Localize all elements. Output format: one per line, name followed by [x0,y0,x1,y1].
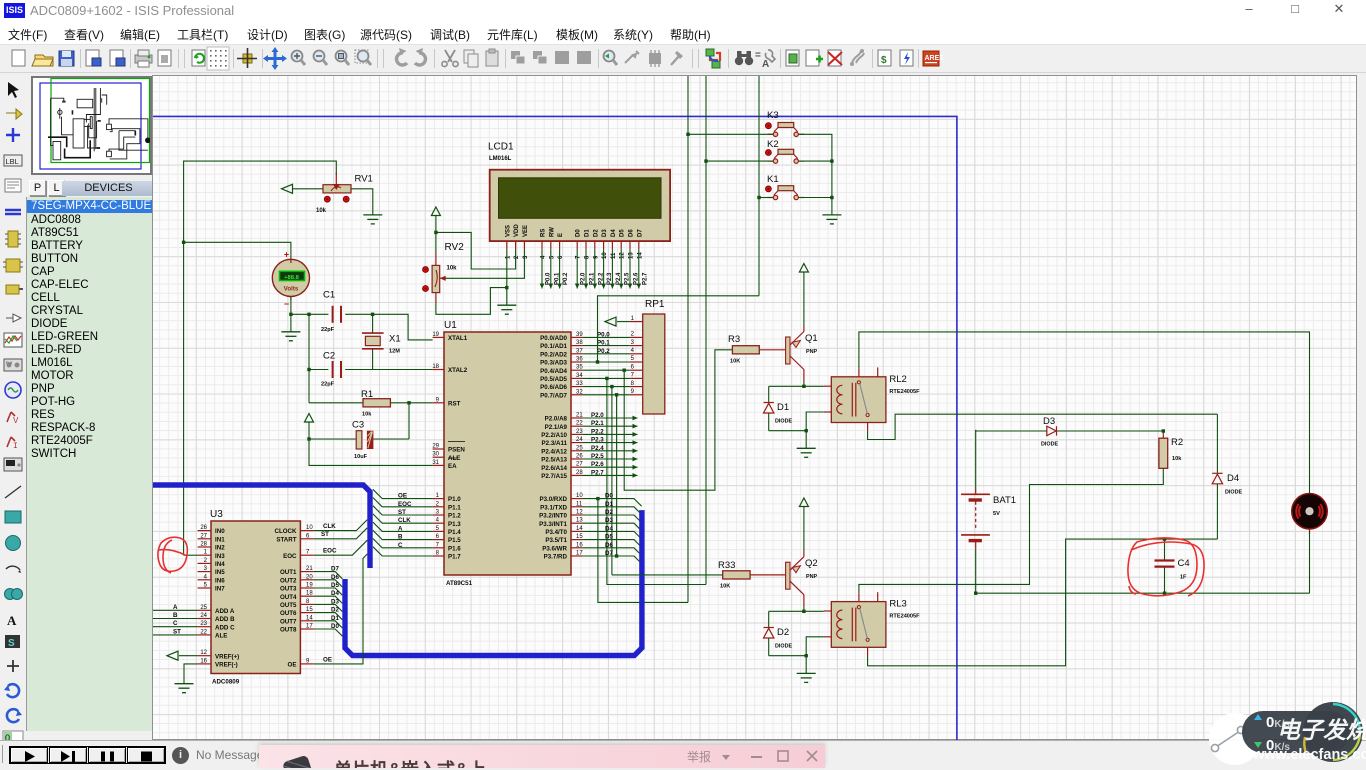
svg-text:P2.6/A14: P2.6/A14 [541,465,567,472]
svg-text:D3: D3 [331,598,339,605]
wire LCD VSS to ground [505,249,508,305]
svg-text:OUT5: OUT5 [280,602,297,609]
svg-text:15: 15 [306,607,313,613]
svg-text:13: 13 [629,252,635,259]
svg-text:25: 25 [200,605,207,611]
wire K1 rail from top [758,76,760,296]
wire K2 rail from top [705,76,707,585]
wire P1.0 [373,489,433,499]
svg-text:P2.7: P2.7 [591,469,604,476]
wire BAT1 minus to motor rail [975,548,977,593]
wire RL2 coil- to ground [769,412,824,448]
svg-text:14: 14 [637,252,643,259]
wire P2.7 row [582,469,637,477]
svg-text:12: 12 [576,510,583,516]
wire VREF- to ground [184,664,198,684]
svg-text:4: 4 [631,348,635,354]
wire P0.4 row [582,369,630,371]
wire LCD P2.3 [601,249,613,288]
wire P0.4 to R3 [623,350,733,490]
svg-text:LBL: LBL [6,157,19,166]
svg-text:P2.7: P2.7 [642,272,648,285]
svg-text:14: 14 [306,615,313,621]
svg-text:D7: D7 [637,229,643,237]
svg-text:IN0: IN0 [215,528,225,535]
wire OUT5 D3 [314,598,343,611]
wire X1 leads [372,314,374,369]
svg-text:P2.2/A10: P2.2/A10 [541,432,567,439]
svg-text:IN5: IN5 [215,569,225,576]
svg-text:IN1: IN1 [215,536,225,543]
svg-text:BAT1: BAT1 [993,495,1016,506]
svg-text:P2.5: P2.5 [591,453,604,460]
svg-text:A: A [7,613,17,628]
svg-text:10: 10 [576,493,583,499]
svg-text:P2.2: P2.2 [591,428,604,435]
svg-text:28: 28 [576,470,583,476]
svg-text:LCD1: LCD1 [488,142,514,153]
wire P0.5 to K2 [605,377,706,585]
wire R33 to Q2 base [750,574,786,576]
svg-text:26: 26 [576,454,583,460]
wire OUT8 D0 [314,623,343,636]
svg-text:VEE: VEE [523,225,529,237]
svg-text:17: 17 [576,551,583,557]
wire RL3 common to R2 [859,468,1163,593]
svg-text:PNP: PNP [806,574,817,580]
wire RL2 common to motor rail [859,332,1310,493]
wire P0.0 row [582,336,630,338]
svg-text:C2: C2 [323,351,335,362]
wire RV1 right to ground [351,189,373,215]
svg-text:P0.2: P0.2 [597,348,610,355]
svg-text:U1: U1 [444,320,457,331]
svg-text:DIODE: DIODE [775,644,792,650]
svg-text:P2.6: P2.6 [591,461,604,468]
wire K2 right [799,159,834,162]
svg-text:P0.0: P0.0 [597,331,610,338]
svg-text:OE: OE [398,493,407,500]
svg-text:RS: RS [541,229,547,237]
wire P0.6 to R33 [610,385,613,575]
label P0.2 [597,348,610,355]
wire P2.5 row [582,453,637,461]
svg-text:Volts: Volts [284,286,299,293]
svg-text:RL3: RL3 [889,599,906,610]
svg-text:ADD B: ADD B [215,616,235,623]
wire LCD P0.0 [540,249,552,288]
svg-text:5: 5 [631,356,635,362]
resistor R1 [361,389,390,418]
svg-text:22: 22 [200,629,207,635]
svg-text:12M: 12M [389,349,400,355]
wire P0.3 row [582,361,630,363]
svg-text:D0: D0 [605,493,613,500]
svg-text:V: V [13,416,19,425]
wire LCD P0.2 [557,249,569,288]
ground LCD [497,305,516,314]
svg-text:EOC: EOC [323,548,337,555]
svg-text:15: 15 [576,534,583,540]
wire LCD VEE to RV2 wiper [442,249,524,278]
svg-text:RV1: RV1 [355,174,373,185]
svg-text:ST: ST [173,628,181,635]
svg-text:P2.7/A15: P2.7/A15 [541,473,567,480]
svg-text:P3.5/T1: P3.5/T1 [545,537,567,544]
svg-text:OUT8: OUT8 [280,627,297,634]
wire LCD VDD to +5V [436,232,516,269]
svg-text:26: 26 [200,525,207,531]
svg-text:Q1: Q1 [805,333,818,344]
wire P2.0 row [582,412,637,420]
svg-text:VREF(-): VREF(-) [215,662,238,669]
svg-text:EOC: EOC [283,553,297,560]
svg-text:5V: 5V [993,511,1000,517]
svg-text:3: 3 [523,255,529,259]
wire LCD P2.1 [584,249,596,288]
svg-text:ADD C: ADD C [215,624,235,631]
diode D4 [1212,414,1242,539]
wire rail to voltmeter [182,241,291,260]
voltmeter Volts [272,250,309,309]
svg-text:OUT4: OUT4 [280,594,297,601]
svg-text:R2: R2 [1171,437,1183,448]
svg-text:P-9: P-9 [6,360,13,365]
terminal RP1 pin1 [605,317,630,326]
svg-text:P3.6/WR: P3.6/WR [542,545,567,552]
label P0.1 [597,340,610,347]
button K1 [766,174,805,200]
wire P2.6 row [582,461,637,469]
ground RL3 [797,673,816,682]
svg-text:C4: C4 [1178,558,1190,569]
power +5V Q1 [799,264,808,332]
wire P3.7/D7 row [582,550,641,564]
svg-text:D6: D6 [331,574,339,581]
wire LCD P2.2 [592,249,604,288]
wire K2 row [704,159,773,162]
svg-text:D4: D4 [605,525,613,532]
wire RV2 bottom [436,288,507,315]
wire R3 to Q1 base [759,349,785,351]
svg-text:D4: D4 [331,590,339,597]
svg-text:举报: 举报 [687,749,711,764]
svg-text:18: 18 [306,591,313,597]
wire P0.2 row [582,353,630,355]
svg-text:XTAL2: XTAL2 [448,367,468,374]
svg-text:38: 38 [576,340,583,346]
svg-text:6: 6 [631,364,635,370]
svg-text:D2: D2 [605,509,613,516]
svg-text:22pF: 22pF [321,382,335,388]
svg-text:P1.7: P1.7 [448,554,461,561]
svg-text:10: 10 [602,252,608,259]
ground U3 [175,684,194,693]
svg-text:P3.7/RD: P3.7/RD [544,554,568,561]
wire ST [314,528,368,539]
resistor R2 [1159,437,1183,468]
wire P0.7 to D7 net [615,393,618,558]
svg-text:31: 31 [432,460,439,466]
diode D2 [764,611,793,655]
wire P1.1 [373,498,433,508]
wire P0.7 row [582,394,630,396]
wire P1.2 [373,506,433,516]
wire ADD B [153,612,198,619]
svg-text:P0.1/AD1: P0.1/AD1 [540,343,567,350]
svg-text:CLK: CLK [323,523,336,530]
terminal VREF+ [167,651,198,660]
svg-text:RTE24005F: RTE24005F [889,389,920,395]
sheet border (blue) [153,116,957,742]
svg-text:4: 4 [541,255,547,259]
svg-text:DIODE: DIODE [1225,490,1242,496]
svg-text:D4: D4 [1227,473,1239,484]
svg-text:VDD: VDD [514,224,520,237]
svg-text:ST: ST [398,509,406,516]
svg-text:D2: D2 [777,627,789,638]
svg-text:D3: D3 [602,229,608,237]
potentiometer RV1 [316,173,373,214]
svg-text:OUT6: OUT6 [280,610,297,617]
wire EOC [314,540,368,555]
svg-text:CLK: CLK [398,517,411,524]
svg-text:OUT7: OUT7 [280,618,297,625]
ground K buttons [822,215,841,224]
wire OUT2 D6 [314,574,343,587]
svg-text:12: 12 [620,252,626,259]
svg-text:C1: C1 [323,290,335,301]
capacitor C1 [321,290,341,334]
annotation circle IN3 [158,537,187,573]
wire voltmeter to ground [289,296,292,331]
svg-text:27: 27 [200,533,207,539]
wire R33 row [612,574,723,576]
wire K3 to D0 net [596,497,688,603]
LCD LCD1 LM016L [488,142,670,260]
transistor Q1 PNP [786,332,818,370]
wire C1 row / XTAL1 [291,313,433,340]
svg-text:OE: OE [323,656,332,663]
svg-text:25: 25 [576,445,583,451]
svg-text:34: 34 [576,373,583,379]
svg-text:START: START [276,536,296,543]
svg-text:AT89C51: AT89C51 [446,580,473,587]
svg-text:EOC: EOC [398,501,412,508]
wire Q2 collector rail [769,595,824,613]
svg-text:14: 14 [576,526,583,532]
svg-text:P0.2: P0.2 [563,272,569,285]
svg-text:C3: C3 [352,420,364,431]
wire K3 right [799,134,832,215]
svg-text:16: 16 [200,658,207,664]
wire RL3 coil- to ground [769,637,824,674]
svg-text:1F: 1F [1180,575,1187,581]
svg-text:U3: U3 [210,509,223,520]
svg-text:3: 3 [631,340,635,346]
svg-text:10K: 10K [720,584,730,590]
wire LCD P2.4 [610,249,622,288]
svg-text:10k: 10k [447,266,458,272]
svg-text:2: 2 [631,332,635,338]
power +5V Q2 [799,498,808,557]
svg-text:23: 23 [576,429,583,435]
svg-text:19: 19 [306,583,313,589]
svg-text:D2: D2 [331,607,339,614]
wire P0.5 row [582,377,630,379]
wire ADD ST [153,628,198,635]
svg-text:K1: K1 [767,174,779,185]
svg-text:C: C [173,620,178,627]
svg-text:10: 10 [306,525,313,531]
svg-text:22: 22 [576,421,583,427]
power +5V C3 [305,414,433,466]
svg-text:39: 39 [576,332,583,338]
svg-text:=: = [755,50,761,61]
svg-text:D3: D3 [1043,416,1055,427]
wire ADD A [153,604,198,611]
wire P3.1/D1 row [582,501,641,515]
svg-text:D1: D1 [585,229,591,237]
svg-text:9: 9 [631,389,635,395]
svg-text:8: 8 [631,381,635,387]
svg-text:7: 7 [631,373,635,379]
svg-text:18: 18 [432,364,439,370]
svg-text:10k: 10k [316,208,327,214]
wire P3.2/D2 row [582,509,641,523]
label P0.0 [597,331,610,338]
svg-text:32: 32 [576,389,583,395]
wire OE [314,554,368,664]
svg-text:X1: X1 [389,334,401,345]
svg-text:33: 33 [576,381,583,387]
battery BAT1 [961,430,1016,548]
svg-text:电子发烧友: 电子发烧友 [1277,718,1366,743]
wire OUT7 D1 [314,615,343,628]
svg-text:P2.4/A12: P2.4/A12 [541,448,567,455]
annotation circle C4 [1128,538,1204,596]
svg-text:9: 9 [593,255,599,259]
svg-text:22pF: 22pF [321,327,335,333]
svg-text:D5: D5 [331,582,339,589]
svg-text:24: 24 [576,437,583,443]
svg-text:23: 23 [200,621,207,627]
svg-text:10k: 10k [1172,456,1182,462]
svg-text:D1: D1 [605,501,613,508]
svg-text:36: 36 [576,357,583,363]
svg-text:8: 8 [585,255,591,259]
wire P1.7 [373,547,433,556]
svg-text:EA: EA [448,463,457,470]
svg-text:P3.4/T0: P3.4/T0 [545,529,567,536]
svg-text:10k: 10k [362,412,372,418]
svg-text:28: 28 [200,542,207,548]
wire P1.5 [373,530,433,540]
svg-text:R3: R3 [728,334,740,345]
svg-text:11: 11 [611,252,617,259]
svg-text:29: 29 [432,444,439,450]
svg-text:12: 12 [200,650,207,656]
wire P1.4 [373,522,433,532]
svg-text:P3.1/TXD: P3.1/TXD [540,504,567,511]
svg-text:D5: D5 [605,534,613,541]
svg-text:P1.2: P1.2 [448,513,461,520]
svg-text:E: E [558,233,564,237]
svg-text:P2.5/A13: P2.5/A13 [541,457,567,464]
wire LCD P0.1 [548,249,560,288]
relay RL2 [824,367,920,430]
transistor Q2 PNP [786,557,818,595]
wire K3 row [686,133,773,136]
resistor R33 [718,560,750,590]
svg-text:D6: D6 [629,229,635,237]
ground RL2 [797,448,816,457]
bus segment 2 [345,510,642,655]
svg-text:21: 21 [306,566,313,572]
svg-text:D1: D1 [777,402,789,413]
wire OUT3 D5 [314,582,343,595]
svg-text:R33: R33 [718,560,735,571]
svg-text:P0.6/AD6: P0.6/AD6 [540,384,567,391]
wire K1 row [757,196,773,199]
svg-text:P2.0: P2.0 [591,412,604,419]
wire RL2 NO pin jog [868,414,1218,439]
svg-text:P0.1: P0.1 [597,340,610,347]
svg-text:D5: D5 [620,229,626,237]
svg-text:D0: D0 [576,229,582,237]
svg-text:K2: K2 [767,139,779,150]
wire P3.4/D4 row [582,525,641,539]
wire ground rail C1C2R1 [307,314,310,403]
svg-text:OUT2: OUT2 [280,577,297,584]
svg-text:P3.2/INT0: P3.2/INT0 [539,513,567,520]
svg-text:R1: R1 [361,389,373,400]
svg-text:35: 35 [576,365,583,371]
svg-text:P1.6: P1.6 [448,545,461,552]
ground voltmeter [281,332,300,341]
svg-text:ALE: ALE [215,633,227,640]
svg-text:ARES: ARES [925,55,945,62]
wire P2.1 row [582,420,637,428]
wire P2.4 row [582,445,637,453]
svg-text:17: 17 [306,624,313,630]
wire RV1 wiper to left rail [184,161,337,555]
svg-text:PNP: PNP [806,349,817,355]
svg-text:P0.5/AD5: P0.5/AD5 [540,376,567,383]
IC U1 AT89C51 [432,320,583,587]
svg-text:Q2: Q2 [805,558,818,569]
wire OUT4 D4 [314,590,343,603]
svg-text:IN4: IN4 [215,561,225,568]
svg-text:1: 1 [505,255,511,259]
svg-text:C: C [398,542,403,549]
svg-text:www.elecfans.com: www.elecfans.com [1252,747,1366,763]
svg-text:IN3: IN3 [215,553,225,560]
svg-text:37: 37 [576,348,583,354]
svg-text:P3.0/RXD: P3.0/RXD [539,496,567,503]
svg-text:6: 6 [558,255,564,259]
svg-text:B: B [398,534,403,541]
wire P2.3 row [582,437,637,445]
svg-text:20: 20 [306,574,313,580]
button K3 [766,110,805,137]
svg-text:A: A [173,604,178,611]
svg-text:P0.3/AD3: P0.3/AD3 [540,360,567,367]
terminal RV1 left [282,184,324,193]
svg-text:16: 16 [576,542,583,548]
svg-text:D2: D2 [593,229,599,237]
svg-text:P2.1/A9: P2.1/A9 [545,424,568,431]
